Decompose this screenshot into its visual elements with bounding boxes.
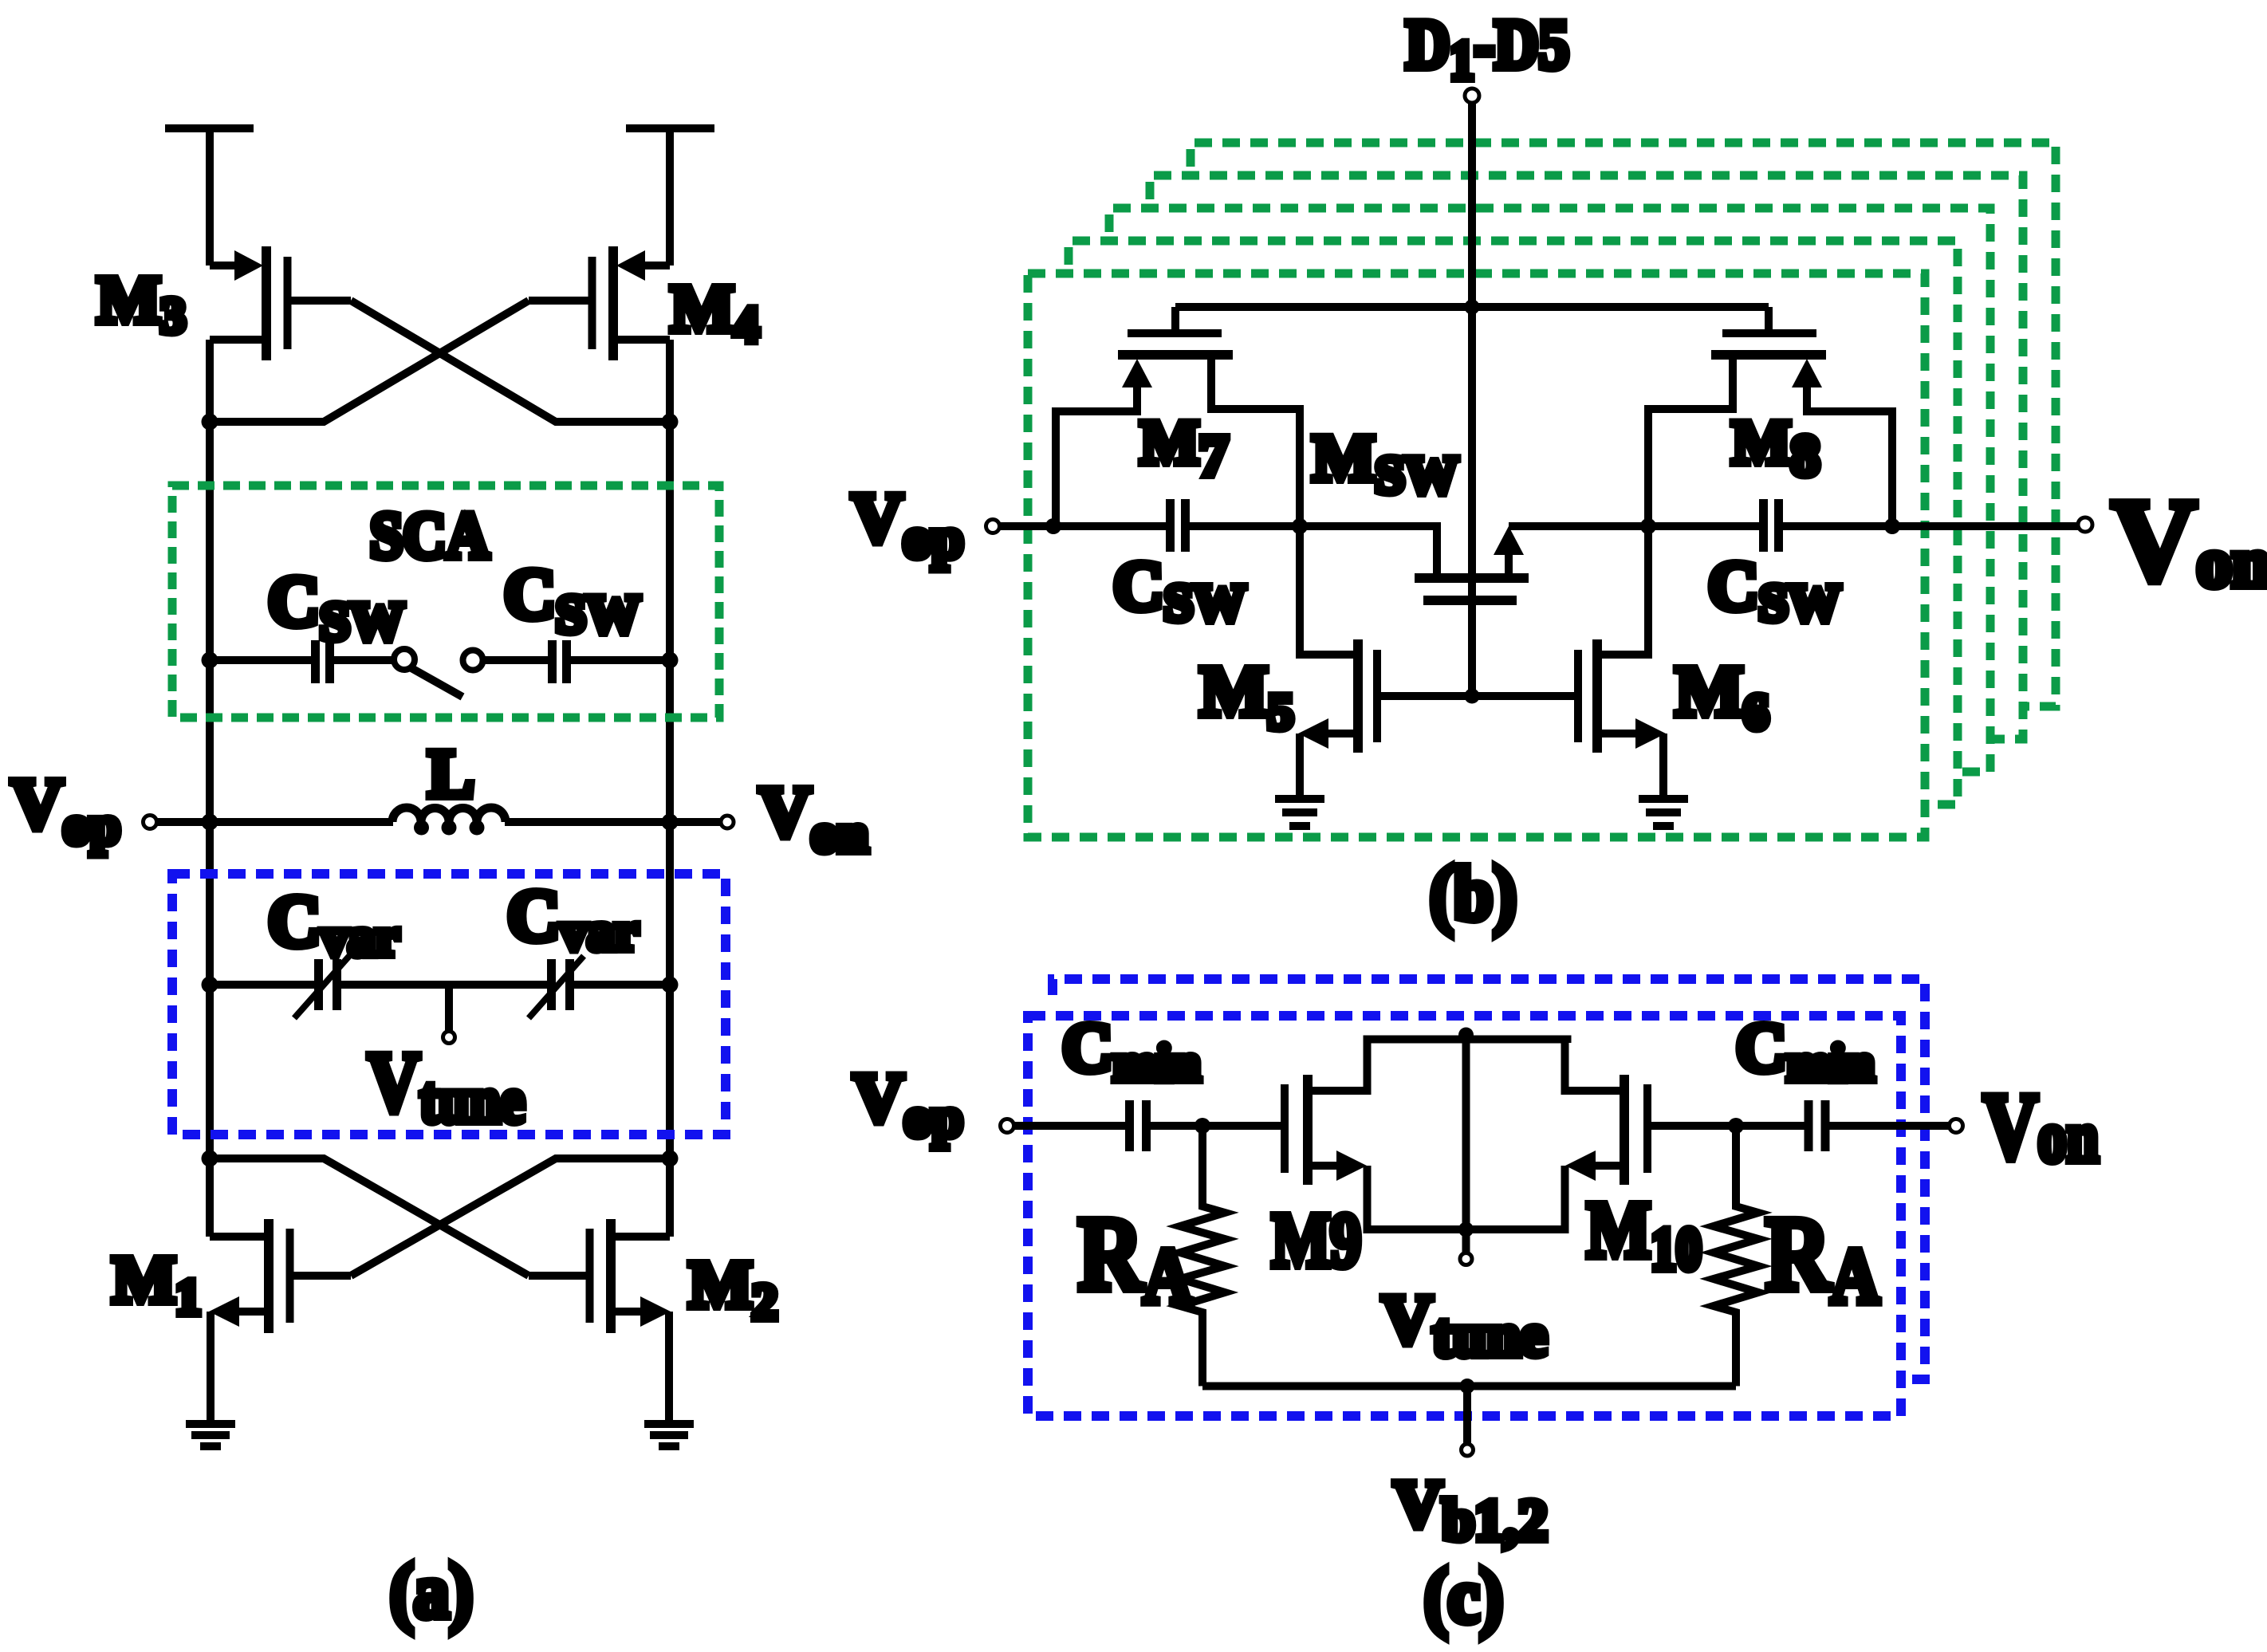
svg-text:Vtune: Vtune	[1382, 1281, 1547, 1369]
transistor M8 gate stem	[1765, 307, 1773, 329]
wire M5 source to ground	[1296, 734, 1304, 795]
wire Cmin left to M9 gate	[1151, 1122, 1281, 1130]
transistor M7 channel bar	[1118, 350, 1233, 360]
transistor M2 channel bar	[606, 1219, 616, 1333]
transistor M8 gate bar	[1722, 329, 1816, 337]
capacitor CSW right plates	[553, 640, 567, 683]
node right drain of M2	[662, 1150, 679, 1167]
svg-text:MSW: MSW	[1313, 421, 1458, 505]
svg-text:Von: Von	[2112, 475, 2267, 606]
wire Vop to Cmin left	[1014, 1122, 1125, 1130]
transistor M8 channel bar	[1711, 350, 1826, 360]
node Von rail	[662, 814, 679, 831]
node left (RA / M9 gate)	[1195, 1118, 1210, 1134]
wire M3 gate to right node (cross-couple)	[351, 301, 670, 422]
transistor M7 source lead	[1056, 386, 1137, 526]
wire cap row left segment	[210, 656, 311, 664]
svg-text:CSW: CSW	[268, 562, 404, 651]
wire inductor to Von	[505, 818, 721, 826]
svg-text:Cvar: Cvar	[507, 875, 639, 962]
varactor Cvar right plates	[552, 959, 570, 1010]
transistor M8 source lead	[1807, 386, 1892, 526]
wire M9/M10 bottom rail	[1368, 1226, 1565, 1229]
transistor M3 channel bar	[262, 246, 271, 360]
svg-text:Cvar: Cvar	[268, 880, 399, 967]
svg-text:M2: M2	[689, 1248, 777, 1330]
svg-text:M7: M7	[1140, 407, 1228, 488]
transistor M5 drain lead	[1300, 526, 1358, 655]
svg-text:CSW: CSW	[1113, 548, 1246, 632]
transistor M9 channel bar	[1303, 1075, 1313, 1185]
wire Vop to inductor	[157, 818, 393, 826]
SCA dashed enclosure	[172, 486, 719, 718]
wire varactor row middle	[341, 981, 547, 989]
transistor M1 gate lead	[293, 1272, 351, 1280]
transistor M9 source lead + arrow	[1308, 1162, 1339, 1170]
wire varactor row right	[574, 981, 670, 989]
transistor M6 gate lead	[1472, 692, 1574, 700]
wire node to Cmin right	[1732, 1122, 1805, 1130]
node M6 drain junction	[1640, 518, 1656, 534]
transistor M6 source lead + arrow	[1597, 730, 1636, 737]
varactor Cvar left slash	[294, 956, 349, 1018]
svg-text:(b): (b)	[1430, 852, 1517, 937]
svg-text:M10: M10	[1587, 1186, 1702, 1283]
transistor M10 channel bar	[1620, 1075, 1629, 1185]
transistor M5 source lead + arrow	[1327, 730, 1358, 737]
wire M7/M8 gate bus	[1175, 303, 1769, 311]
resistor RA left	[1180, 1126, 1225, 1386]
transistor M2 source lead + arrow	[615, 1308, 642, 1316]
wire D control line	[1468, 103, 1476, 696]
node M7 drain junction	[1292, 518, 1308, 534]
transistor M10 drain lead	[1565, 1040, 1625, 1091]
transistor M9 gate bar	[1281, 1084, 1289, 1173]
svg-text:Von: Von	[759, 773, 868, 863]
wire M6 source to ground	[1659, 734, 1667, 795]
wire M4 gate to left node (cross-couple)	[210, 301, 529, 422]
wire right rail	[666, 340, 674, 1237]
wire M9/M10 top rail	[1368, 1040, 1568, 1044]
node M8 source junction	[1884, 518, 1900, 534]
svg-text:L: L	[428, 735, 474, 812]
switch contact right circle	[463, 651, 483, 671]
wire Vop to CSW left	[1000, 522, 1166, 530]
inductor L	[392, 808, 506, 822]
power VDD left (M3 source supply)	[165, 128, 254, 265]
transistor M1 gate bar	[286, 1229, 294, 1323]
wire M1 gate to right node (cross-couple)	[351, 1158, 670, 1276]
capacitor Cmin left plates	[1130, 1100, 1147, 1151]
node gate bus / D line	[1465, 300, 1480, 315]
capacitor Cmin right plates	[1808, 1100, 1825, 1151]
transistor M4 gate lead	[529, 297, 588, 305]
ground M5	[1275, 799, 1324, 826]
transistor M10 gate lead	[1651, 1122, 1732, 1130]
transistor M7 gate bar	[1128, 329, 1222, 337]
terminal D1-D5	[1465, 88, 1479, 103]
svg-text:M9: M9	[1272, 1198, 1361, 1283]
transistor M4 drain lead	[617, 336, 670, 344]
terminal Vtune (c)	[1460, 1253, 1472, 1265]
wire cap row right segment	[571, 656, 670, 664]
transistor M5 channel bar	[1353, 639, 1363, 753]
transistor M2 gate bar	[586, 1229, 594, 1323]
svg-text:CSW: CSW	[504, 555, 640, 644]
wire Cmin right to Von	[1829, 1122, 1949, 1130]
wire cap to switch	[334, 656, 394, 664]
node right drain of M4	[662, 414, 679, 431]
transistor M3 (PMOS) source lead + arrow	[210, 262, 238, 269]
transistor M4 gate bar	[588, 257, 596, 349]
svg-text:Von: Von	[1983, 1074, 2099, 1178]
svg-text:Cmin: Cmin	[1062, 1009, 1201, 1092]
transistor M6 channel bar	[1592, 639, 1602, 753]
transistor M5 gate bar	[1373, 650, 1381, 742]
node M7 source junction	[1045, 518, 1061, 534]
terminal Vop (b)	[986, 520, 1000, 533]
svg-text:Vop: Vop	[852, 479, 963, 570]
node bottom rail center	[1458, 1222, 1474, 1237]
transistor M3 drain lead	[210, 336, 262, 344]
node Vop rail	[202, 814, 218, 831]
svg-text:Vb1,2: Vb1,2	[1394, 1467, 1548, 1552]
svg-text:RA: RA	[1078, 1194, 1192, 1320]
transistor M6 drain lead	[1597, 526, 1648, 655]
svg-text:(c): (c)	[1424, 1554, 1503, 1639]
ground M1	[186, 1424, 235, 1446]
capacitor CSW right plates	[1764, 499, 1779, 552]
svg-text:M8: M8	[1732, 407, 1820, 488]
ground M2	[644, 1424, 694, 1446]
wire CSW left to MSW	[1190, 526, 1437, 582]
transistor MSW right lead	[1505, 553, 1513, 578]
transistor M2 (NMOS) drain lead	[615, 1233, 670, 1241]
wire MSW to CSW right	[1509, 522, 1759, 530]
transistor M10 source lead + arrow	[1593, 1162, 1624, 1170]
wire varactor row left	[210, 981, 314, 989]
svg-text:D1-D5: D1-D5	[1406, 6, 1569, 92]
transistor M1 source lead + arrow	[238, 1308, 265, 1316]
svg-text:M3: M3	[97, 263, 186, 344]
transistor M10 gate bar	[1643, 1084, 1651, 1173]
svg-text:Vop: Vop	[11, 765, 120, 855]
svg-text:SCA: SCA	[370, 499, 489, 572]
svg-text:Vtune: Vtune	[368, 1036, 525, 1136]
transistor M9 drain lead	[1308, 1040, 1368, 1091]
svg-text:M5: M5	[1200, 652, 1293, 740]
terminal Von (b)	[2078, 517, 2092, 532]
wire Vtune tap	[445, 985, 453, 1031]
transistor MSW top plate	[1415, 573, 1529, 583]
transistor M4 (PMOS) source lead + arrow	[642, 262, 670, 269]
transistor M1 (NMOS) drain lead	[210, 1233, 265, 1241]
varactor Cvar right slash	[529, 956, 584, 1018]
svg-text:M6: M6	[1675, 652, 1769, 740]
svg-text:M1: M1	[112, 1243, 201, 1325]
SCA cell dashed enclosure (stacked copy 3)	[1150, 175, 2023, 739]
node varactor row left	[202, 977, 218, 993]
SCA cell dashed enclosure (stacked copy 4)	[1191, 143, 2056, 706]
SCA cell dashed enclosure (stacked copy 2)	[1109, 208, 1990, 772]
wire Vb bus	[1202, 1383, 1736, 1390]
power VDD right (M4 source supply)	[626, 128, 714, 265]
switch contact left circle	[394, 649, 415, 670]
node varactor row right	[662, 977, 679, 993]
svg-text:RA: RA	[1765, 1194, 1879, 1320]
SCA cell dashed enclosure (stacked copy 1)	[1069, 241, 1958, 804]
node top rail center	[1458, 1028, 1474, 1043]
varactor Cvar left plates	[319, 959, 337, 1010]
transistor M2 gate lead	[529, 1272, 586, 1280]
transistor M7 source arrow	[1122, 359, 1152, 387]
wire M1 source to ground	[207, 1312, 214, 1420]
wire M2 source to ground	[665, 1312, 673, 1420]
node right (RA / M10 gate)	[1728, 1118, 1744, 1134]
transistor M6 gate bar	[1574, 650, 1582, 742]
transistor MSW gate bar	[1423, 596, 1517, 605]
node left drain of M3	[202, 414, 218, 431]
terminal Vb1,2	[1462, 1444, 1474, 1456]
wire Vb stub	[1463, 1386, 1471, 1445]
transistor M7 drain lead	[1211, 355, 1300, 526]
node Vb bus center	[1460, 1379, 1475, 1394]
capacitor CSW left plates	[316, 640, 330, 683]
wire M2 gate to left node (cross-couple)	[210, 1158, 529, 1276]
varactor cell dashed enclosure (stacked copy)	[1053, 979, 1925, 1379]
transistor M5 gate lead	[1381, 692, 1472, 700]
transistor M8 source arrow	[1792, 359, 1822, 387]
node cap row right	[662, 652, 679, 669]
ground M6	[1639, 799, 1688, 826]
wire CSW right to Von	[1783, 522, 2078, 530]
wire left rail	[206, 340, 214, 1237]
transistor M8 drain lead	[1648, 355, 1733, 526]
transistor M4 channel bar	[608, 246, 618, 360]
svg-text:(a): (a)	[390, 1549, 473, 1634]
wire center tap vertical	[1462, 1040, 1470, 1253]
terminal Von (a)	[721, 816, 734, 828]
svg-text:CSW: CSW	[1708, 548, 1840, 632]
transistor MSW right arrow	[1494, 526, 1524, 555]
transistor M7 gate stem	[1171, 307, 1179, 329]
terminal Vtune (a)	[443, 1032, 455, 1044]
transistor M3 gate bar	[284, 257, 292, 349]
varactor dashed enclosure (blue)	[172, 874, 726, 1135]
capacitor CSW left plates	[1171, 499, 1186, 552]
resistor RA right	[1714, 1126, 1758, 1386]
terminal Vop (a)	[144, 816, 157, 829]
transistor M1 channel bar	[264, 1219, 274, 1333]
inductor L winding feet	[414, 820, 429, 836]
transistor M3 gate lead	[291, 297, 351, 305]
SCA cell dashed enclosure (front)	[1028, 273, 1925, 837]
terminal Von (c)	[1950, 1119, 1963, 1133]
switch lever	[411, 668, 462, 697]
node left drain of M1	[202, 1150, 218, 1167]
terminal Vop (c)	[1001, 1119, 1014, 1133]
wire switch to right cap	[483, 656, 548, 664]
node cap row left	[202, 652, 218, 669]
svg-text:M4: M4	[671, 272, 759, 352]
svg-text:Vop: Vop	[853, 1060, 963, 1149]
varactor cell dashed enclosure (front)	[1028, 1016, 1901, 1416]
svg-text:Cmin: Cmin	[1736, 1009, 1875, 1092]
node M5/M6 gate junction	[1465, 689, 1480, 704]
